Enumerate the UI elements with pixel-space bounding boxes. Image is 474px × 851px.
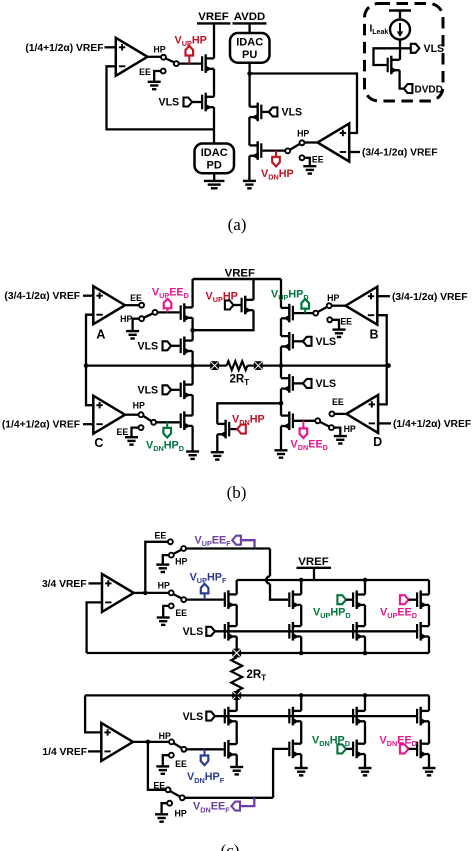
- wire MDN source to ground: [216, 434, 218, 452]
- op-amp U2 (mirrored): [318, 124, 350, 162]
- ground bottom-mid: [156, 766, 169, 773]
- switch bottom pole: [180, 795, 185, 800]
- node junction dot: [247, 71, 252, 76]
- transistor col2 row2 bottom: [289, 740, 301, 759]
- wire col3 row1 source: [364, 605, 366, 626]
- xbox rail1: [232, 649, 241, 658]
- elbow to col2 row2 gate bottom: [273, 749, 288, 798]
- transistor M2 (VLS): [202, 93, 214, 112]
- svg-text:HP: HP: [175, 557, 187, 567]
- feedback wire U1 - input: [107, 66, 215, 129]
- wire S1 to M1 gate: [179, 62, 201, 64]
- wire col3 row1 bottom source: [364, 721, 366, 743]
- op-amp F2: [101, 723, 133, 761]
- transistor MB1 (mirrored): [281, 304, 293, 323]
- switch EE top circle: [168, 539, 173, 544]
- ground MC1: [186, 452, 199, 459]
- svg-text:2RT: 2RT: [247, 669, 267, 683]
- ground IDAC PD: [204, 181, 225, 188]
- output junction dot F1: [143, 591, 148, 596]
- wire node down to M3: [248, 74, 250, 107]
- wire EE throw to ground B: [332, 320, 339, 330]
- feedback wire F2 + input: [85, 695, 101, 732]
- port VLS dashed box: [400, 47, 411, 49]
- switch A throw circle HP: [139, 316, 144, 321]
- port VDNEED c: [400, 744, 409, 753]
- wire HP throw to ground top: [163, 555, 169, 564]
- port VUPEEF: [232, 536, 241, 545]
- wire current source to node: [399, 40, 401, 60]
- transistor MHP mid: [242, 296, 254, 315]
- wire pole to colF row2 gate bottom: [186, 748, 223, 750]
- signal bulb VDNEED: [302, 421, 304, 429]
- dashed box leakage ref: [365, 4, 444, 102]
- svg-text:A: A: [96, 328, 105, 342]
- signal bulb VUPEED: [167, 308, 169, 312]
- wire HP throw to ground D: [334, 428, 341, 436]
- transistor col4 row1: [417, 590, 429, 609]
- wire col4 row1 source: [428, 605, 430, 626]
- wire col2 row1 source: [300, 605, 302, 626]
- svg-text:HP: HP: [153, 45, 165, 55]
- wire col3 row1 drain: [364, 580, 366, 595]
- svg-text:EE: EE: [332, 397, 344, 407]
- switch S2 throw circle EE: [300, 155, 305, 160]
- wire M4 source to ground: [248, 156, 250, 181]
- wire colF row1 bottom source: [236, 721, 238, 744]
- switch HP mid: [148, 592, 169, 594]
- transistor M1: [202, 54, 214, 73]
- svg-text:VREF: VREF: [198, 11, 228, 23]
- port VLS c top: [206, 627, 215, 636]
- op-amp B (mirrored): [346, 287, 378, 325]
- svg-text:VDNHP: VDNHP: [232, 414, 265, 428]
- wire F2 output: [133, 741, 169, 743]
- svg-text:(1/4+1/2α) VREF: (1/4+1/2α) VREF: [2, 420, 80, 431]
- xbox rail3: [232, 691, 241, 700]
- port VLS c bottom: [206, 712, 215, 721]
- svg-text:IDAC: IDAC: [201, 147, 228, 159]
- wire col2 row1 bottom drain: [300, 695, 302, 711]
- transistor M5 in dashed box: [388, 56, 400, 75]
- wire col2 row2 source: [300, 637, 302, 654]
- svg-text:PD: PD: [207, 160, 222, 172]
- wire F2 output down to EE switch: [148, 742, 166, 790]
- ground switch bottom: [155, 814, 168, 821]
- transistor M4 (mirrored): [249, 141, 261, 160]
- switch top pole circle: [181, 546, 186, 551]
- rail3: [85, 694, 429, 696]
- port VUPHPD c: [337, 595, 346, 604]
- rail2 corner to col4: [428, 580, 430, 595]
- ground colF bottom: [230, 767, 243, 774]
- wire U2 - input to label: [349, 151, 360, 153]
- transistor MD1 (mirrored): [281, 412, 293, 431]
- switch top throw circle HP: [169, 553, 174, 558]
- wire pole to colF gate: [186, 598, 224, 600]
- wire IDAC PD to ground: [213, 173, 215, 181]
- switch bottom blade: [170, 791, 180, 797]
- rail3 corner col4: [428, 695, 430, 711]
- transistor col4 row2 bottom: [417, 740, 429, 759]
- wire MDN drain elbow to node: [217, 403, 281, 424]
- port VLS MB2: [294, 340, 303, 342]
- svg-text:VDNEED: VDNEED: [291, 438, 328, 452]
- svg-text:IDAC: IDAC: [236, 37, 263, 49]
- svg-text:VREF: VREF: [225, 267, 255, 279]
- op-amp A: [93, 286, 125, 324]
- svg-text:VDNHPD: VDNHPD: [146, 439, 184, 453]
- svg-text:VLS: VLS: [183, 626, 204, 638]
- transistor M3 (VLS, mirrored): [249, 103, 261, 122]
- switch EE bottom circle: [166, 787, 171, 792]
- svg-text:PU: PU: [242, 49, 257, 61]
- wire M1 source to M2 drain: [213, 69, 215, 97]
- svg-text:(3/4-1/2α) VREF: (3/4-1/2α) VREF: [4, 291, 80, 302]
- svg-text:VUPHPD: VUPHPD: [271, 289, 309, 303]
- svg-text:VUPHPD: VUPHPD: [313, 606, 351, 620]
- rail2: [237, 579, 429, 581]
- svg-text:EE: EE: [130, 293, 142, 303]
- wire node to U2 + input: [250, 74, 357, 134]
- svg-text:ILeak: ILeak: [370, 24, 389, 37]
- transistor MA1: [181, 303, 193, 322]
- port VLS MC2: [163, 385, 172, 394]
- svg-text:VLS: VLS: [138, 341, 159, 353]
- wire EE throw to ground mid: [163, 606, 169, 617]
- VLS gate line top: [215, 630, 416, 632]
- wire col2 row1 drain: [300, 580, 302, 595]
- wire M2 source down to feedback node: [213, 107, 215, 143]
- ground switch D: [334, 436, 347, 443]
- wire col3 row2 bottom source to ground: [364, 754, 366, 768]
- wire HP throw to ground A: [133, 319, 140, 331]
- resistor 2RT: [227, 361, 248, 370]
- svg-text:VLS: VLS: [316, 378, 337, 390]
- wire pole to gate column: [186, 547, 270, 549]
- transistor col3 row1 bottom: [353, 707, 365, 726]
- signal bulb VDNHPF: [204, 749, 206, 755]
- switch C blade: [143, 416, 151, 421]
- ground switch mid: [157, 618, 170, 625]
- feedback wire A - input: [86, 315, 93, 366]
- wire B + input: [377, 295, 390, 297]
- transistor col2 row2: [289, 622, 301, 641]
- port VLS for M3: [262, 111, 268, 113]
- wire A output: [125, 304, 139, 306]
- wire colF row1 bottom drain: [236, 695, 238, 711]
- switch B blade: [318, 307, 327, 312]
- wire EE throw to ground bottom-mid: [163, 755, 169, 766]
- wire col2 row2 bottom source to ground: [300, 754, 302, 768]
- wire EE throw to D output: [334, 413, 346, 415]
- port VDNHPD c: [337, 744, 346, 753]
- transistor MDN mid (mirrored): [217, 420, 229, 439]
- purple wire VDNEEF: [240, 798, 254, 806]
- svg-text:EE: EE: [155, 530, 167, 540]
- svg-text:HP: HP: [133, 401, 145, 411]
- wire pole bottom to elbow: [185, 797, 274, 799]
- rail3 dots: [299, 693, 304, 698]
- svg-text:B: B: [369, 327, 378, 341]
- wire MC1 source to ground: [191, 426, 193, 451]
- port VUPEED c: [400, 595, 409, 604]
- svg-text:VUPHPF: VUPHPF: [190, 572, 227, 586]
- wire MB1 gate to switch B: [294, 312, 313, 314]
- wire pole to MC1 gate: [156, 421, 180, 423]
- net VREF rail b: [193, 278, 281, 280]
- rail1 dots: [299, 651, 304, 656]
- wire MHP source to node A: [193, 310, 254, 330]
- wire MB2 source to row: [280, 347, 282, 366]
- svg-text:EE: EE: [312, 155, 324, 165]
- svg-text:VUPHP: VUPHP: [206, 290, 238, 304]
- block IDAC PU: [230, 33, 270, 63]
- transistor col3 row2 bottom: [353, 740, 365, 759]
- ground col3 bottom: [359, 768, 372, 775]
- output junction dot F2: [146, 740, 151, 745]
- wire HP throw to B output: [332, 305, 346, 307]
- switch bottom-mid pole: [181, 747, 186, 752]
- svg-text:HP: HP: [159, 731, 171, 741]
- wire MA1 drain to VREF: [191, 279, 193, 307]
- diode connection wire: [374, 48, 401, 65]
- wire col3 row2 source: [364, 637, 366, 654]
- ground switch B: [333, 330, 346, 337]
- transistor MB2 (VLS, mirrored): [281, 332, 293, 351]
- transistor colF row2 bottom: [225, 740, 237, 759]
- ground switch top: [156, 565, 169, 572]
- transistor MC1: [181, 411, 193, 430]
- switch A throw circle EE: [139, 303, 144, 308]
- svg-text:VLS: VLS: [316, 336, 337, 348]
- switch D throw circle HP: [329, 425, 334, 430]
- svg-text:VLS: VLS: [159, 97, 180, 109]
- svg-text:AVDD: AVDD: [234, 11, 265, 23]
- switch C pole circle: [151, 420, 156, 425]
- switch A blade: [144, 313, 153, 317]
- transistor MA2 (VLS): [181, 337, 193, 356]
- wire pole to MA1 gate: [157, 311, 179, 313]
- switch bottom throw HP: [167, 801, 172, 806]
- ground for EE throw: [148, 82, 161, 89]
- wire EE throw to ground S2: [304, 158, 309, 166]
- xbox left: [210, 361, 219, 370]
- transistor col4 row1 bottom: [417, 707, 429, 726]
- switch D blade: [320, 422, 329, 427]
- signal bulb VUPHP: [188, 56, 190, 64]
- svg-text:VREF: VREF: [298, 556, 328, 568]
- wire MB1 source to MB2 drain: [280, 318, 282, 336]
- transistor colF row1: [225, 590, 237, 609]
- ground M4: [243, 181, 256, 188]
- wire to + input of U1: [105, 46, 116, 48]
- svg-text:VLS: VLS: [183, 711, 204, 723]
- svg-text:1/4 VREF: 1/4 VREF: [42, 747, 87, 758]
- switch B throw circle HP: [327, 303, 332, 308]
- wire colF row2 bottom source to ground: [236, 755, 238, 767]
- wire AVDD to IDAC PU: [248, 23, 250, 33]
- signal bulb VUPHPD: [304, 309, 306, 314]
- transistor MC2 (VLS): [181, 381, 193, 400]
- svg-text:HP: HP: [120, 314, 132, 324]
- feedback wire C + input: [86, 366, 93, 406]
- wire MD1 source to ground: [280, 426, 282, 450]
- switch A pole circle: [153, 310, 158, 315]
- transistor col2 row1 bottom: [289, 707, 301, 726]
- wire EE throw to ground C: [132, 428, 139, 437]
- svg-text:EE: EE: [139, 67, 151, 77]
- svg-text:HP: HP: [327, 293, 339, 303]
- xbox right: [254, 361, 263, 370]
- svg-text:3/4 VREF: 3/4 VREF: [42, 579, 87, 590]
- svg-text:(b): (b): [227, 483, 247, 502]
- resistor 2RT c: [231, 657, 242, 691]
- wire M1 drain to VREF: [213, 23, 215, 58]
- wire colF row1 source down: [236, 605, 238, 626]
- rail1: [87, 652, 429, 654]
- wire M4 gate to switch S2: [262, 149, 285, 151]
- port VDNHP: [230, 428, 237, 430]
- svg-text:VDNHPD: VDNHPD: [312, 734, 350, 748]
- svg-text:HP: HP: [344, 424, 356, 434]
- wire M3 source to M4 drain: [248, 117, 250, 145]
- wire MA1 source to node: [191, 318, 193, 341]
- switch bottom-mid throw EE: [169, 753, 174, 758]
- svg-text:(c): (c): [221, 841, 240, 851]
- svg-text:VDNEEF: VDNEEF: [193, 801, 230, 815]
- wire MD2 drain to row: [280, 366, 282, 379]
- svg-text:VLS: VLS: [282, 107, 303, 119]
- wire MC2 source to MC1 drain: [191, 395, 193, 416]
- svg-text:(a): (a): [228, 215, 247, 234]
- port VDNEEF: [231, 802, 240, 811]
- VLS gate line bottom: [215, 715, 416, 717]
- switch C throw circle EE: [139, 425, 144, 430]
- ground MDN: [211, 452, 224, 459]
- port DVDD: [404, 84, 413, 93]
- wire D - input: [378, 422, 391, 424]
- current source ILeak: [390, 20, 410, 40]
- switch D throw circle EE: [329, 411, 334, 416]
- switch C circle HP: [139, 412, 144, 417]
- signal bulb VDNHPD: [166, 422, 168, 428]
- feedback wire D + input: [378, 366, 387, 405]
- svg-text:VUPEEF: VUPEEF: [195, 535, 232, 549]
- signal bulb VDNHP: [275, 151, 277, 157]
- transistor col3 row2: [353, 622, 365, 641]
- port VLS MA2: [163, 341, 172, 350]
- port VLS MD2: [294, 382, 303, 384]
- wire col2 row1 bottom source: [300, 721, 302, 743]
- svg-text:HP: HP: [174, 809, 186, 819]
- transistor col3 row1: [353, 590, 365, 609]
- svg-text:(1/4+1/2α) VREF: (1/4+1/2α) VREF: [25, 43, 103, 54]
- op-amp C: [93, 396, 125, 434]
- port VLS for M2: [184, 98, 193, 107]
- svg-text:HP: HP: [297, 129, 309, 139]
- signal bulb VUPHPF: [204, 593, 206, 599]
- svg-text:(3/4-1/2α) VREF: (3/4-1/2α) VREF: [392, 292, 468, 303]
- switch S2 blade: [290, 144, 300, 150]
- wire M5 source to DVDD: [400, 70, 404, 88]
- svg-text:VDNHP: VDNHP: [261, 168, 294, 182]
- wire colF drain to rail2: [236, 580, 238, 594]
- row junction dots: [84, 363, 89, 368]
- switch S1 pole circle: [161, 55, 166, 60]
- svg-text:(1/4+1/2α) VREF: (1/4+1/2α) VREF: [393, 419, 471, 430]
- svg-text:2RT: 2RT: [230, 373, 250, 387]
- svg-text:VDNHPF: VDNHPF: [187, 771, 225, 785]
- transistor colF row1 bottom VLS: [225, 707, 237, 726]
- transistor col2 row1: [289, 590, 301, 609]
- svg-text:C: C: [94, 436, 103, 450]
- purple wire VUPEEF: [241, 540, 255, 547]
- transistor MD2 (VLS, mirrored): [281, 374, 293, 393]
- ground EE S2: [303, 166, 316, 173]
- svg-text:EE: EE: [340, 316, 352, 326]
- feedback wire F1 - input: [87, 602, 102, 653]
- ground switch C: [125, 437, 138, 444]
- svg-text:HP: HP: [158, 581, 170, 591]
- switch S1 throw circle EE: [161, 69, 166, 74]
- switch bottom-mid blade: [174, 743, 182, 748]
- ground col4 bottom: [423, 768, 436, 775]
- switch S1 throw circle HP: [174, 61, 179, 66]
- block IDAC PD: [195, 144, 235, 174]
- svg-text:VUPEED: VUPEED: [152, 286, 189, 300]
- switch top blade: [174, 550, 182, 554]
- svg-text:VDNEED: VDNEED: [380, 734, 417, 748]
- switch B pole circle: [313, 311, 318, 316]
- wire col3 row1 bottom drain: [364, 695, 366, 711]
- wire MA2 source to row: [191, 351, 193, 366]
- op-amp F1: [102, 574, 134, 612]
- svg-text:D: D: [373, 435, 382, 449]
- transistor col4 row2: [417, 622, 429, 641]
- switch S2 pole circle: [285, 148, 290, 153]
- wire up to EE switch: [145, 542, 168, 593]
- wire col4 row2 bottom source to ground: [428, 754, 430, 768]
- switch S1 blade: [166, 59, 175, 63]
- port VUPHP: [225, 301, 234, 310]
- ground col2 bottom: [295, 768, 308, 775]
- wire MC2 drain to row: [191, 366, 193, 385]
- switch S2 throw circle HP: [300, 140, 305, 145]
- row wire 2RT left: [86, 364, 227, 366]
- svg-text:EE: EE: [175, 759, 187, 769]
- wire MD1 gate to switch D: [294, 420, 315, 422]
- op-amp D (mirrored): [346, 395, 378, 433]
- wire MB1 drain to VREF: [280, 279, 282, 308]
- node dot D rail: [279, 401, 284, 406]
- switch D pole circle: [315, 418, 320, 423]
- svg-text:VLS: VLS: [424, 43, 445, 55]
- wire EE throw to ground: [154, 71, 161, 82]
- rail1 corner col4: [428, 637, 430, 654]
- svg-text:VUPEED: VUPEED: [380, 606, 417, 620]
- row wire 2RT right: [247, 364, 388, 366]
- vertical wire with hop: [269, 549, 271, 577]
- wire U1 output: [148, 56, 162, 58]
- rail2 dots: [299, 578, 304, 583]
- node dot A: [190, 328, 195, 333]
- transistor colF row2 VLS: [225, 622, 237, 641]
- svg-text:EE: EE: [117, 427, 129, 437]
- switch mid pole circle: [181, 597, 186, 602]
- svg-text:EE: EE: [175, 608, 187, 618]
- svg-text:DVDD: DVDD: [415, 84, 443, 95]
